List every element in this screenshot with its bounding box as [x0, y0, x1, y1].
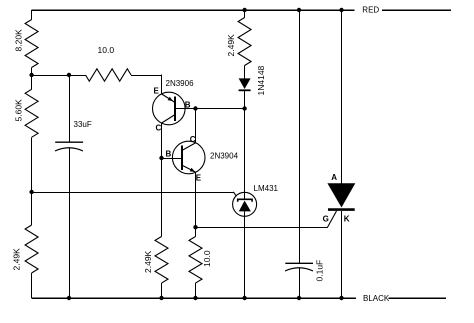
- wire SCR cathode to bottom rail: [341, 211, 343, 298]
- thyristor SCR: [327, 183, 355, 207]
- capacitor C 33uF lead top: [69, 75, 71, 142]
- svg-text:G: G: [323, 215, 329, 224]
- svg-text:2.49K: 2.49K: [143, 250, 153, 273]
- svg-text:8.20K: 8.20K: [14, 29, 24, 52]
- capacitor 0.1uF lead bottom: [299, 268, 301, 298]
- svg-text:RED: RED: [362, 6, 379, 15]
- wire 2N3906 base to diode node: [175, 108, 245, 110]
- wire 2N3906 collector down to base node of Q2: [161, 123, 163, 236]
- node junction at 341.5,298: [339, 296, 343, 300]
- wire 10.0 to 2N3906 emitter: [131, 75, 162, 77]
- capacitor 0.1uF plates: [285, 262, 313, 264]
- diode D1 1N4148: [239, 78, 251, 89]
- wire gate drive to SCR: [196, 227, 328, 229]
- resistor 10.0 bottom: [189, 237, 202, 284]
- node junction at 161.5,158: [159, 156, 163, 160]
- node junction at 244.6,108.5: [242, 106, 246, 110]
- node junction at 195.5,108.5: [193, 106, 197, 110]
- svg-text:2.49K: 2.49K: [12, 248, 22, 271]
- wire 2.49K left to bottom rail: [31, 273, 33, 298]
- node junction at 244.6,298: [242, 296, 246, 300]
- wire bottom rail left segment: [32, 297, 356, 299]
- node junction at 244.6,10: [242, 8, 246, 12]
- svg-text:10.0: 10.0: [98, 45, 115, 55]
- node junction at 341.5,10: [339, 8, 343, 12]
- svg-text:A: A: [331, 173, 337, 182]
- wire diode to node: [244, 90, 246, 108]
- resistor 10.0 top: [86, 69, 132, 81]
- svg-text:K: K: [344, 215, 350, 224]
- resistor 2.49K top: [238, 18, 251, 66]
- transistor Q1 2N3906: [153, 92, 186, 125]
- capacitor 33uF plates: [55, 141, 83, 143]
- resistor 5.60K: [25, 89, 38, 137]
- node junction at 31.6,75: [29, 73, 33, 77]
- wire 2.49K top to diode: [244, 66, 246, 79]
- svg-text:2N3904: 2N3904: [210, 152, 239, 161]
- svg-text:E: E: [154, 86, 160, 95]
- svg-text:10.0: 10.0: [202, 250, 212, 267]
- svg-text:B: B: [166, 150, 172, 159]
- wire node row y=75: [32, 75, 86, 77]
- wire 10.0 bottom to rail: [195, 283, 197, 298]
- node junction at 161.5,298: [159, 296, 163, 300]
- regulator U1 LM431: [233, 192, 257, 216]
- svg-text:C: C: [156, 124, 162, 133]
- svg-text:2N3906: 2N3906: [166, 79, 195, 88]
- wire top lead of 2.49K top: [244, 10, 246, 18]
- wire top rail right segment: [382, 9, 451, 11]
- node junction at 69,298: [67, 296, 71, 300]
- wire between 5.60K and 2.49K left: [31, 137, 33, 225]
- node junction at 69,75: [67, 73, 71, 77]
- wire top rail left segment: [32, 9, 355, 11]
- node junction at 299,10: [297, 8, 301, 12]
- resistor 8.20K: [25, 20, 38, 68]
- wire node down to LM431: [244, 109, 246, 200]
- svg-text:E: E: [196, 173, 202, 182]
- wire 2.49K bottom to rail: [161, 283, 163, 298]
- wire reference from divider to LM431: [32, 192, 234, 194]
- resistor 2.49K bottom: [155, 237, 168, 284]
- svg-text:2.49K: 2.49K: [226, 34, 236, 57]
- wire Q2 emitter down: [195, 172, 197, 236]
- svg-text:33uF: 33uF: [74, 120, 92, 129]
- node junction at 299,298: [297, 296, 301, 300]
- wire bottom rail right segment: [389, 297, 447, 299]
- svg-text:1N4148: 1N4148: [256, 65, 266, 95]
- wire SCR anode: [341, 10, 343, 183]
- resistor 2.49K left: [25, 225, 38, 273]
- wire LM431 anode to bottom rail: [244, 211, 246, 298]
- node junction at 195.5,298: [193, 296, 197, 300]
- node junction at 31.6,191.8: [29, 190, 33, 194]
- wire between 8.20K and 5.60K: [31, 68, 33, 90]
- svg-text:5.60K: 5.60K: [14, 99, 24, 122]
- svg-text:C: C: [190, 135, 196, 144]
- wire Q2 collector up to node: [195, 109, 197, 143]
- capacitor 0.1uF lead top: [299, 10, 301, 263]
- capacitor 33uF lead bottom: [69, 148, 71, 298]
- svg-text:BLACK: BLACK: [363, 294, 390, 303]
- node junction at 195.5,227.2: [193, 225, 197, 229]
- svg-text:0.1uF: 0.1uF: [315, 260, 325, 282]
- transistor Q2 2N3904: [172, 141, 205, 174]
- wire left column top lead: [31, 10, 33, 20]
- svg-text:LM431: LM431: [254, 184, 279, 193]
